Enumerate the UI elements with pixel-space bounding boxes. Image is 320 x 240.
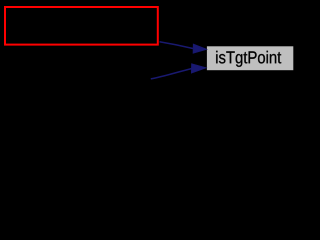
edge: hidden caller -> isTgtPoint (lower arrow shaft)	[151, 69, 192, 79]
node isTgtPoint (current node, gray box)	[207, 46, 293, 70]
arrowhead of upper edge	[193, 44, 207, 54]
edge: caller -> isTgtPoint (upper arrow shaft)	[160, 42, 194, 49]
node: truncated caller (red border, empty label)	[5, 7, 158, 45]
label "isTgtPoint" (glyph outlines, Liberation Sans metrics)	[216, 51, 281, 67]
arrowhead of lower edge	[191, 64, 206, 74]
